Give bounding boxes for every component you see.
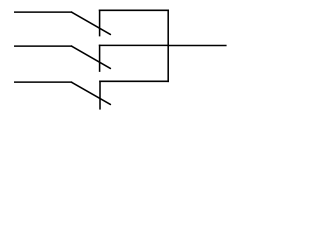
wire output pole C	[100, 80, 168, 82]
contact bar pole A	[99, 10, 101, 35]
wire input pole A	[15, 11, 72, 13]
contact bar pole B	[99, 45, 101, 71]
wire input pole C	[15, 81, 72, 83]
switch blade pole C	[71, 82, 110, 104]
switch blade pole A	[71, 12, 110, 34]
contact bar pole C	[99, 81, 101, 109]
wire input pole B	[15, 45, 72, 47]
wire output pole A	[100, 9, 169, 11]
wire output common	[168, 45, 226, 47]
wire output pole B	[100, 44, 169, 46]
bus vertical joining poles	[167, 10, 169, 81]
switch blade pole B	[71, 46, 110, 68]
